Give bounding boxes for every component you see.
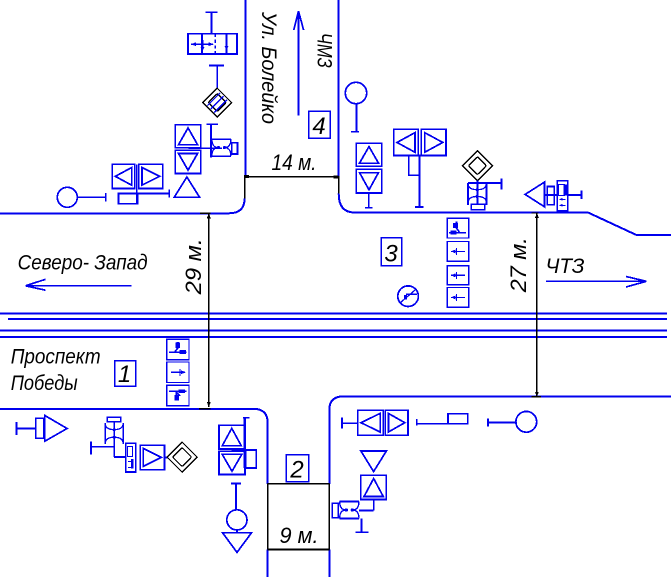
node box 4: [309, 111, 331, 140]
wire north road left edge (Ul. Bogeyko west side): [229, 0, 245, 213]
sign pair left-right arrows (west): [112, 164, 169, 203]
svg-text:29 м.: 29 м.: [181, 238, 206, 295]
svg-text:2: 2: [289, 457, 303, 484]
dimension 14 m line: [244, 175, 339, 178]
svg-text:Победы: Победы: [11, 372, 78, 395]
streetlight west: [57, 187, 106, 207]
wire main road top edge west: [0, 213, 229, 215]
wire median line 4: [0, 336, 667, 338]
streetlight north-east: [345, 82, 366, 131]
dimension 29 m line: [199, 213, 211, 408]
wire south road left edge: [267, 423, 269, 577]
svg-text:ЧМЗ: ЧМЗ: [313, 33, 336, 68]
svg-text:Ул. Болейко: Ул. Болейко: [257, 11, 280, 124]
label ChMZ: [313, 33, 336, 68]
svg-text:4: 4: [312, 113, 325, 140]
wire main road bottom edge east: [344, 395, 671, 397]
svg-text:14 м.: 14 м.: [272, 150, 317, 175]
arrow west direction: [26, 279, 132, 290]
wire north road right edge (Ul. Bogeyko east side): [339, 0, 355, 213]
label 29 m: [181, 238, 206, 295]
svg-text:Проспект: Проспект: [11, 345, 101, 368]
streetlight south-east: [488, 411, 537, 432]
sign group triangle and boards (far east): [525, 181, 581, 211]
node box 1: [115, 361, 136, 389]
label Prospekt: [11, 345, 101, 368]
sign pair left-right arrows (south-east): [342, 410, 468, 435]
dimension 9 m box: [268, 484, 330, 550]
sign main road diamond with traffic light (east): [462, 151, 501, 210]
svg-text:3: 3: [384, 241, 398, 268]
arrow north direction: [294, 11, 304, 116]
wire median line 1: [0, 312, 667, 314]
sign no stopping circle (centre): [398, 286, 419, 307]
sign pair left-right arrows (north-east): [394, 129, 446, 207]
sign main road diamond (north-west): [203, 66, 232, 118]
signal with give-way (south road): [223, 483, 252, 552]
label Ul. Boleyko: [257, 11, 280, 124]
wire median line 2: [8, 318, 667, 320]
wire south road right edge: [329, 396, 344, 577]
sign cluster give-way with traffic light (south-east): [332, 451, 386, 532]
wire main road top edge east with taper: [355, 213, 671, 235]
traffic light (north-west corner): [188, 124, 237, 157]
label ChTZ: [546, 254, 585, 278]
sign right arrow with diamond (south-west): [140, 442, 197, 472]
sign stack lane arrows (centre): [447, 218, 468, 307]
svg-text:27 м.: 27 м.: [506, 237, 531, 293]
sign stack up-down triangles (south road): [219, 418, 256, 475]
sign stack lane arrows (west): [167, 339, 189, 406]
svg-text:ЧТЗ: ЧТЗ: [546, 254, 585, 278]
arrow east direction: [546, 277, 646, 288]
svg-text:Северо- Запад: Северо- Запад: [18, 251, 148, 274]
label 14 m: [272, 150, 317, 175]
sign stack up-down triangles (north-east): [356, 143, 381, 207]
label 9 m: [280, 523, 319, 548]
sign lane directions board (top-left): [188, 12, 237, 54]
svg-text:1: 1: [118, 361, 131, 388]
label Severo-Zapad: [18, 251, 148, 274]
traffic light cluster (south-west): [91, 417, 136, 472]
label Pobedy: [11, 372, 78, 395]
sign stack up-down triangles (west): [174, 125, 201, 198]
dimension 27 m line: [532, 213, 542, 397]
node box 3: [381, 238, 401, 268]
label 27 m: [506, 237, 531, 293]
sign give-way ahead (south-west): [16, 415, 67, 441]
svg-text:9 м.: 9 м.: [280, 523, 319, 548]
wire main road bottom edge west: [0, 409, 268, 423]
node box 2: [286, 455, 309, 484]
wire median line 3: [0, 329, 667, 331]
